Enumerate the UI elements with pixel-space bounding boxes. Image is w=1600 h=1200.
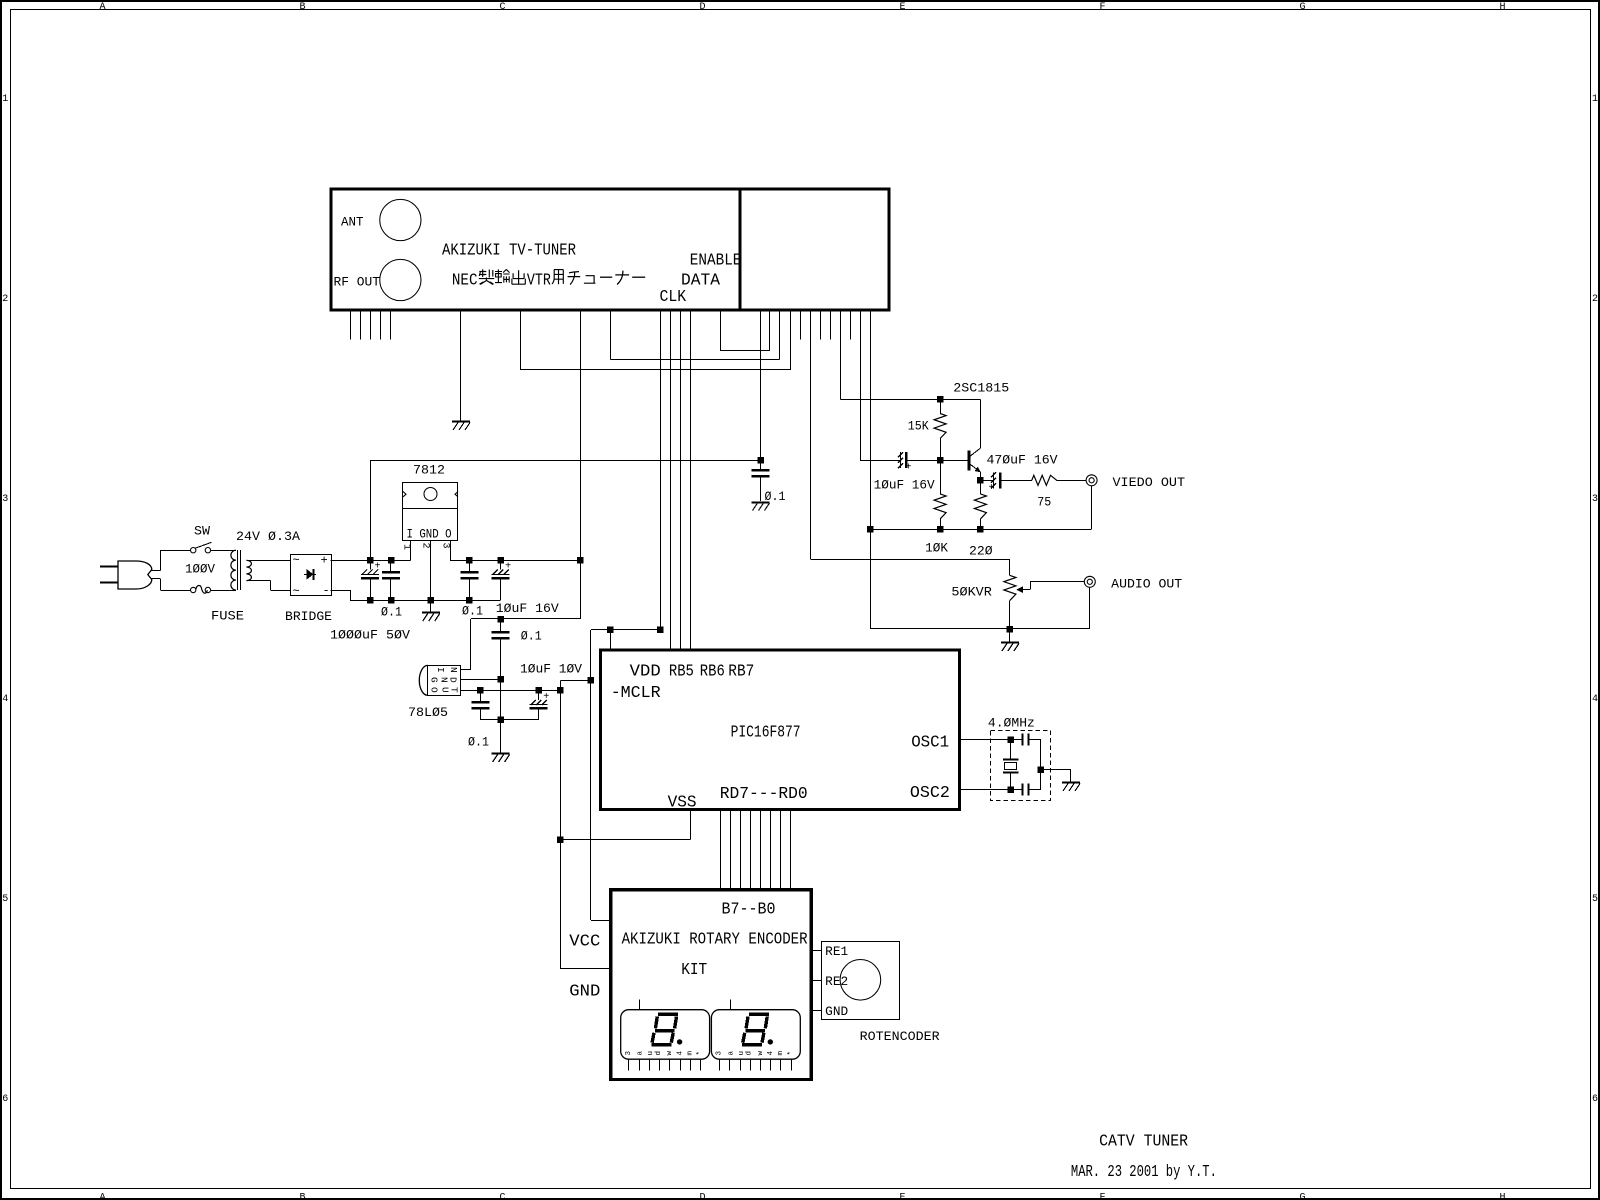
svg-text:u: u xyxy=(738,1051,746,1056)
svg-text:H: H xyxy=(1499,2,1505,13)
svg-text:RB7: RB7 xyxy=(728,663,754,682)
svg-text:4: 4 xyxy=(767,1051,775,1056)
svg-text:F: F xyxy=(1099,2,1105,13)
svg-text:VSS: VSS xyxy=(668,794,697,813)
svg-text:OSC1: OSC1 xyxy=(911,734,949,753)
svg-text:5: 5 xyxy=(1592,894,1598,905)
svg-text:4: 4 xyxy=(1592,694,1598,705)
svg-text:Ø.1: Ø.1 xyxy=(468,736,489,750)
svg-text:SW: SW xyxy=(194,525,211,539)
svg-text:75: 75 xyxy=(1037,496,1051,510)
svg-text:D: D xyxy=(699,2,705,13)
svg-text:T: T xyxy=(449,687,460,693)
svg-text:ROTENCODER: ROTENCODER xyxy=(860,1030,941,1044)
svg-text:Ø.1: Ø.1 xyxy=(765,490,786,504)
svg-text:1ØØØuF 5ØV: 1ØØØuF 5ØV xyxy=(330,629,411,643)
svg-text:KIT: KIT xyxy=(681,961,707,980)
svg-text:1ØK: 1ØK xyxy=(925,542,948,556)
svg-text:RD7---RD0: RD7---RD0 xyxy=(720,785,808,804)
svg-text:2: 2 xyxy=(420,543,431,549)
svg-text:*: * xyxy=(787,1051,795,1056)
svg-text:1ØuF 16V: 1ØuF 16V xyxy=(496,602,560,616)
svg-text:+: + xyxy=(543,692,549,703)
svg-text:2: 2 xyxy=(2,294,8,305)
svg-text:G: G xyxy=(1299,2,1305,13)
svg-text:AKIZUKI ROTARY ENCODER: AKIZUKI ROTARY ENCODER xyxy=(622,931,808,950)
svg-text:Ø.1: Ø.1 xyxy=(462,605,483,619)
svg-text:1: 1 xyxy=(2,94,8,105)
svg-text:3: 3 xyxy=(440,543,451,549)
svg-text:I: I xyxy=(435,667,446,673)
svg-text:3: 3 xyxy=(716,1051,724,1056)
svg-text:d: d xyxy=(746,1051,754,1056)
svg-text:+: + xyxy=(321,554,328,568)
svg-text:2: 2 xyxy=(1592,294,1598,305)
svg-text:1ØuF 16V: 1ØuF 16V xyxy=(874,479,936,493)
svg-text:1: 1 xyxy=(401,544,412,550)
svg-text:m: m xyxy=(777,1051,785,1056)
svg-text:C: C xyxy=(499,2,505,13)
svg-text:BRIDGE: BRIDGE xyxy=(285,610,332,624)
svg-text:G: G xyxy=(429,677,440,683)
svg-text:RF OUT: RF OUT xyxy=(334,276,381,290)
svg-text:CATV TUNER: CATV TUNER xyxy=(1099,1133,1188,1152)
svg-text:DATA: DATA xyxy=(681,272,721,291)
svg-text:+: + xyxy=(906,463,912,474)
svg-text:A: A xyxy=(99,1192,105,1200)
svg-text:Ø.1: Ø.1 xyxy=(521,630,542,644)
svg-text:-MCLR: -MCLR xyxy=(611,684,661,703)
svg-text:u: u xyxy=(647,1051,655,1056)
svg-text:5: 5 xyxy=(2,894,8,905)
svg-text:+: + xyxy=(505,562,511,573)
svg-text:1ØuF 1ØV: 1ØuF 1ØV xyxy=(520,663,583,677)
svg-text:1ØØV: 1ØØV xyxy=(185,563,215,577)
svg-text:B7--B0: B7--B0 xyxy=(722,901,776,920)
svg-text:E: E xyxy=(899,1192,905,1200)
svg-text:1: 1 xyxy=(1592,94,1598,105)
svg-text:ANT: ANT xyxy=(341,216,364,230)
svg-text:15K: 15K xyxy=(908,420,929,434)
svg-text:78LØ5: 78LØ5 xyxy=(408,706,448,720)
svg-text:D: D xyxy=(448,677,459,683)
svg-text:RE1: RE1 xyxy=(825,945,848,959)
svg-text:GND: GND xyxy=(825,1005,848,1019)
svg-text:d: d xyxy=(655,1051,663,1056)
svg-text:~: ~ xyxy=(293,554,300,568)
svg-text:N: N xyxy=(448,667,459,673)
svg-text:A: A xyxy=(99,2,105,13)
svg-text:3: 3 xyxy=(625,1051,633,1056)
svg-text:G: G xyxy=(1299,1192,1305,1200)
svg-text:RB6: RB6 xyxy=(700,663,725,682)
svg-text:2SC1815: 2SC1815 xyxy=(953,382,1009,396)
svg-text:m: m xyxy=(687,1051,695,1056)
svg-text:~: ~ xyxy=(293,585,300,599)
svg-text:B: B xyxy=(299,1192,305,1200)
svg-text:w: w xyxy=(666,1051,674,1056)
svg-text:4: 4 xyxy=(2,694,8,705)
svg-text:MAR. 23 2001 by Y.T.: MAR. 23 2001 by Y.T. xyxy=(1071,1163,1217,1182)
svg-text:3: 3 xyxy=(1592,494,1598,505)
svg-text:w: w xyxy=(757,1051,765,1056)
svg-text:a: a xyxy=(637,1051,645,1056)
svg-text:-: - xyxy=(323,584,330,598)
svg-text:C: C xyxy=(499,1192,505,1200)
svg-text:3: 3 xyxy=(2,494,8,505)
svg-text:O: O xyxy=(429,687,440,693)
svg-text:ENABLE: ENABLE xyxy=(690,252,742,271)
svg-text:H: H xyxy=(1499,1192,1505,1200)
svg-text:7812: 7812 xyxy=(413,464,445,478)
svg-text:I GND O: I GND O xyxy=(407,528,452,542)
svg-text:4: 4 xyxy=(677,1051,685,1056)
svg-text:+: + xyxy=(375,562,381,573)
svg-text:B: B xyxy=(299,2,305,13)
svg-text:CLK: CLK xyxy=(660,288,687,307)
svg-text:24V Ø.3A: 24V Ø.3A xyxy=(236,530,301,544)
svg-text:*: * xyxy=(697,1051,705,1056)
svg-text:GND: GND xyxy=(569,983,600,1002)
svg-text:22Ø: 22Ø xyxy=(969,545,993,559)
svg-text:Ø.1: Ø.1 xyxy=(381,606,402,620)
svg-text:6: 6 xyxy=(1592,1094,1598,1105)
svg-text:VDD: VDD xyxy=(630,663,661,682)
svg-text:4.ØMHz: 4.ØMHz xyxy=(988,717,1035,731)
svg-text:NEC: NEC xyxy=(452,272,478,291)
svg-text:47ØuF 16V: 47ØuF 16V xyxy=(987,454,1059,468)
svg-text:E: E xyxy=(899,2,905,13)
svg-text:RB5: RB5 xyxy=(669,663,694,682)
svg-text:a: a xyxy=(727,1051,735,1056)
svg-text:VCC: VCC xyxy=(569,933,600,952)
svg-text:5ØKVR: 5ØKVR xyxy=(951,585,992,599)
svg-text:AUDIO OUT: AUDIO OUT xyxy=(1111,578,1183,592)
svg-text:FUSE: FUSE xyxy=(211,610,244,624)
svg-text:D: D xyxy=(699,1192,705,1200)
svg-text:VTR: VTR xyxy=(527,272,551,291)
svg-text:6: 6 xyxy=(2,1094,8,1105)
svg-text:RE2: RE2 xyxy=(825,975,848,989)
svg-text:AKIZUKI TV-TUNER: AKIZUKI TV-TUNER xyxy=(442,242,576,261)
svg-text:F: F xyxy=(1099,1192,1105,1200)
svg-text:PIC16F877: PIC16F877 xyxy=(731,724,801,743)
svg-text:+: + xyxy=(989,483,995,494)
svg-text:OSC2: OSC2 xyxy=(910,784,950,803)
svg-text:VIEDO OUT: VIEDO OUT xyxy=(1113,476,1186,490)
